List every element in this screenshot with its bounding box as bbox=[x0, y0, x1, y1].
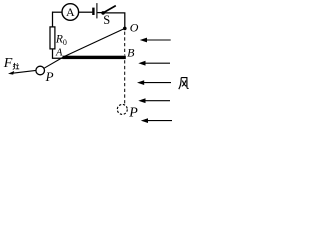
svg-text:S: S bbox=[103, 13, 110, 27]
wind arrow 3 line bbox=[142, 82, 171, 84]
string O to A bbox=[65, 28, 125, 56]
wind arrow 1 line bbox=[145, 39, 171, 41]
dashed line O to B bbox=[124, 32, 126, 56]
pulley ball P (solid circle) bbox=[36, 66, 45, 75]
wind arrow 5 head bbox=[141, 118, 148, 123]
wire resistor to bottom corner bbox=[53, 49, 64, 58]
svg-text:0: 0 bbox=[63, 38, 67, 47]
wind arrow 1 head bbox=[140, 38, 147, 43]
string A to P bbox=[44, 56, 65, 68]
wind arrow 4 head bbox=[138, 98, 145, 103]
rod AB (thick bar) bbox=[63, 56, 126, 59]
wire top-left horizontal bbox=[52, 11, 62, 13]
wire ammeter to battery bbox=[79, 11, 93, 13]
battery cell negative plate bbox=[92, 8, 94, 15]
resistor R0 body bbox=[50, 27, 55, 49]
switch S blade bbox=[103, 6, 116, 13]
force label subscript 拉 (drawn strokes) bbox=[13, 63, 19, 70]
node O dot bbox=[123, 27, 127, 31]
svg-text:A: A bbox=[66, 5, 75, 19]
ammeter U1 bbox=[62, 4, 79, 21]
svg-text:P: P bbox=[128, 105, 138, 120]
svg-text:A: A bbox=[55, 47, 63, 58]
ball P' (dashed circle) bbox=[117, 104, 127, 114]
wire switch to top-right corner and down to O bbox=[103, 13, 125, 28]
wire battery to switch bbox=[97, 12, 103, 14]
svg-text:R: R bbox=[55, 34, 63, 46]
force arrow F_la line bbox=[11, 70, 36, 73]
wind arrow 5 line bbox=[146, 120, 172, 122]
svg-text:P: P bbox=[45, 69, 54, 84]
battery cell positive plate bbox=[96, 3, 98, 18]
wind label 风 (drawn strokes) bbox=[179, 78, 189, 90]
wind arrow 2 line bbox=[144, 62, 171, 64]
svg-text:O: O bbox=[130, 21, 139, 35]
force arrow F_la head bbox=[8, 71, 14, 75]
switch S pivot dot bbox=[101, 11, 105, 15]
svg-text:F: F bbox=[3, 56, 13, 71]
dashed line B to P' bbox=[124, 60, 126, 103]
wind arrow 2 head bbox=[138, 61, 145, 66]
wire top-left vertical bbox=[52, 12, 55, 27]
svg-text:B: B bbox=[127, 46, 135, 60]
wind arrow 3 head bbox=[137, 80, 144, 85]
wind arrow 4 line bbox=[144, 100, 171, 102]
